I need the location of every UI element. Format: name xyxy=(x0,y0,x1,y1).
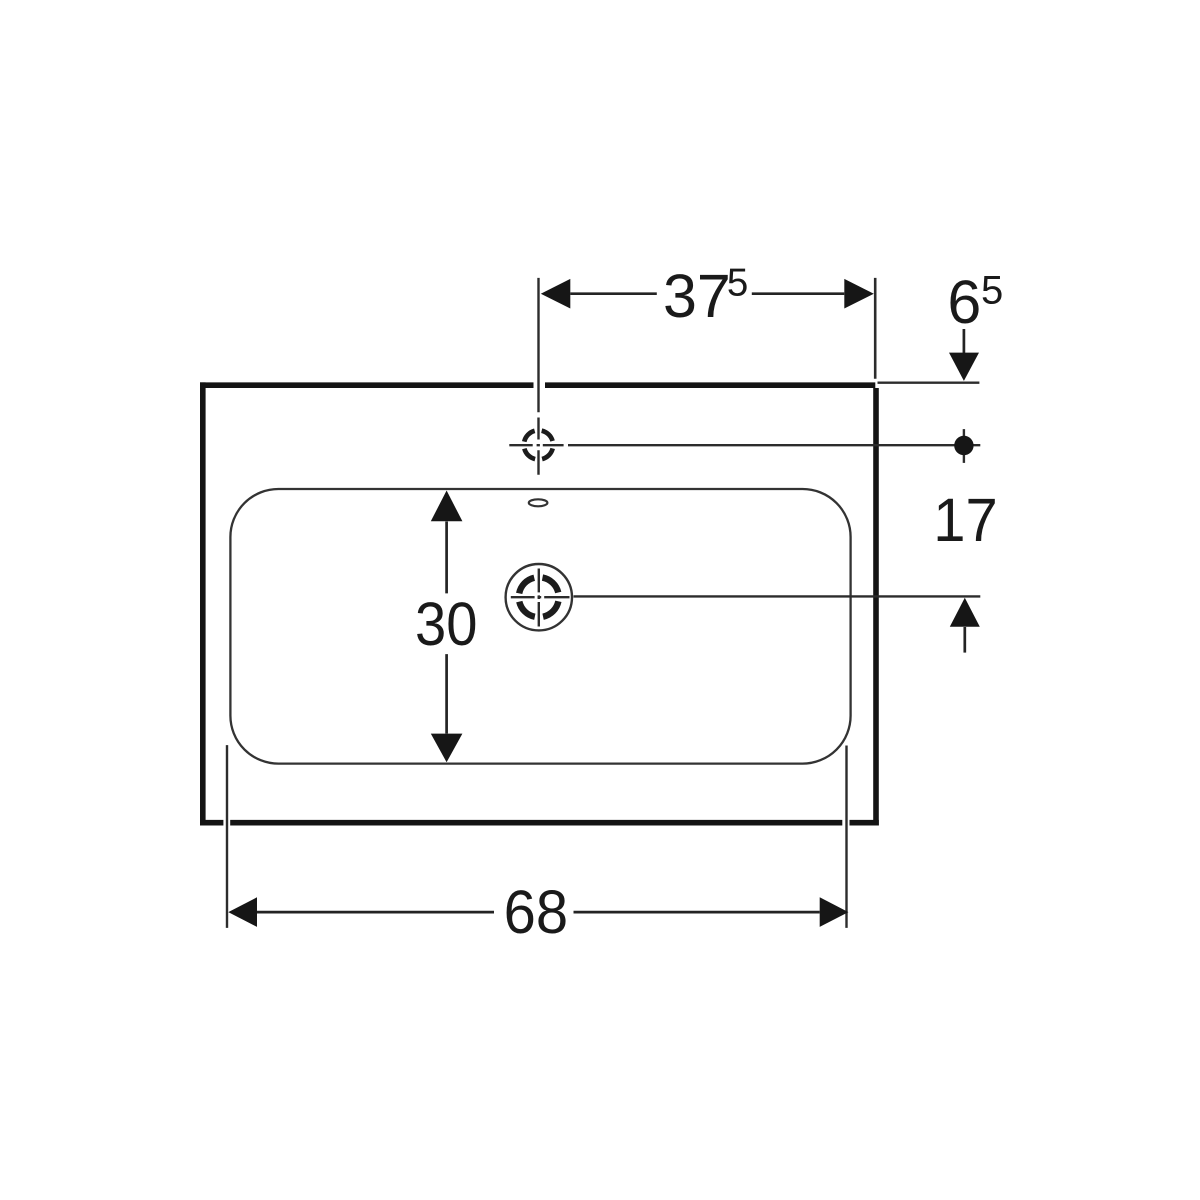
svg-text:17: 17 xyxy=(933,486,997,555)
svg-text:30: 30 xyxy=(415,591,477,659)
svg-text:5: 5 xyxy=(727,261,748,304)
svg-text:37: 37 xyxy=(663,262,731,330)
svg-text:6: 6 xyxy=(947,268,981,336)
svg-text:5: 5 xyxy=(981,269,1003,313)
svg-text:68: 68 xyxy=(504,878,568,947)
